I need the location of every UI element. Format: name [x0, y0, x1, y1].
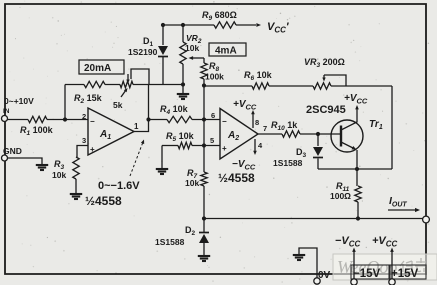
- wire VR2 wiper to R8: [203, 58, 205, 63]
- wire D1 anode: [162, 25, 164, 45]
- wire R1 to A1 inverting input: [47, 119, 88, 121]
- junction D1 top on rail: [161, 23, 165, 27]
- wire A2 output pin 7: [258, 133, 282, 135]
- svg-text:10k: 10k: [185, 178, 199, 188]
- ground (R3): [70, 194, 82, 199]
- junction VR2 bottom: [181, 82, 185, 86]
- svg-text:1S2190: 1S2190: [128, 47, 158, 57]
- wire VR1 wiper loop: [131, 69, 149, 85]
- junction summing column / pin 5 line: [202, 143, 206, 147]
- resistor R6: [244, 70, 273, 89]
- ground (input GND): [36, 165, 48, 170]
- terminal +15V: [389, 279, 395, 285]
- wire VR2 bottom to ground: [182, 64, 184, 93]
- resistor R10: [271, 120, 300, 137]
- wire D3 cathode to emitter rail: [317, 159, 319, 170]
- ground (VR2 / D1 branch): [177, 94, 189, 99]
- transistor Tr1 2SC945: [331, 105, 363, 169]
- wire R4 to A2 pin 6: [192, 119, 220, 121]
- svg-text:10k: 10k: [52, 170, 66, 180]
- svg-text:0~+10V: 0~+10V: [4, 96, 34, 106]
- svg-text:10k: 10k: [185, 43, 199, 53]
- diode D2 1S1588: [199, 233, 209, 244]
- wire VR2 top: [182, 25, 184, 42]
- wire feedback left vertical: [64, 85, 66, 120]
- potentiometer VR2: [180, 42, 204, 64]
- svg-text:½4558: ½4558: [85, 194, 122, 208]
- svg-text:1: 1: [134, 122, 139, 131]
- op-amp A2: [220, 109, 258, 160]
- wire node B to R6: [204, 85, 252, 87]
- wire R3 bottom: [75, 179, 77, 193]
- terminal 0V: [314, 278, 320, 284]
- wire D3 anode: [317, 134, 319, 146]
- resistor R11: [355, 186, 361, 202]
- svg-text:−: −: [90, 117, 95, 126]
- resistor R7: [201, 172, 207, 186]
- wire R10 to base: [300, 133, 341, 135]
- wire R11 to output rail: [357, 202, 359, 219]
- junction summing column / pin 6 line: [202, 117, 206, 121]
- svg-text:1S1588: 1S1588: [155, 237, 185, 247]
- terminal output (right border): [423, 216, 430, 223]
- wire output rail: [204, 218, 423, 220]
- svg-text:0~−1.6V: 0~−1.6V: [98, 180, 140, 192]
- svg-text:20mA: 20mA: [84, 63, 111, 74]
- svg-text:5k: 5k: [113, 100, 123, 110]
- ground (R5): [156, 169, 168, 174]
- wire input to R1: [7, 119, 28, 121]
- svg-text:8: 8: [255, 118, 259, 127]
- op-amp A1: [88, 108, 134, 155]
- wire -15V supply arrow: [352, 248, 356, 281]
- potentiometer VR3 (rheostat): [313, 75, 346, 89]
- wire R6 to VR3: [269, 85, 313, 87]
- wire GND terminal: [7, 158, 42, 164]
- node VCC' arrow: [256, 23, 261, 27]
- wire sense loop right vertical: [391, 86, 393, 169]
- wire R7 to output rail: [203, 186, 205, 219]
- svg-text:1S1588: 1S1588: [273, 158, 303, 168]
- annotation box 4mA: [209, 43, 246, 57]
- resistor R9: [202, 10, 237, 28]
- resistor R1: [20, 116, 54, 137]
- wire D1 cathode: [162, 57, 164, 85]
- wire emitter rail: [318, 168, 392, 170]
- wire feedback rail: [65, 84, 149, 86]
- wire +15V supply arrow: [390, 248, 394, 281]
- wire emitter to R11: [356, 169, 358, 186]
- junction A1 output / R4: [146, 117, 150, 121]
- svg-text:100Ω: 100Ω: [330, 191, 351, 201]
- wire 0V terminal loop: [299, 248, 317, 278]
- svg-text:2: 2: [82, 112, 86, 121]
- svg-text:7: 7: [263, 124, 267, 133]
- svg-text:4mA: 4mA: [215, 46, 237, 57]
- wire D1 cathode to VR2 bottom: [149, 84, 183, 86]
- wire R5 left to ground: [161, 146, 163, 169]
- wire VR3 to sense loop corner: [331, 85, 392, 87]
- ground (D2): [198, 256, 210, 261]
- diode D1 1S2190: [158, 46, 168, 57]
- +15V terminal box: [390, 265, 426, 279]
- svg-text:GND: GND: [3, 146, 22, 156]
- svg-text:6: 6: [211, 111, 215, 120]
- resistor R3: [73, 157, 79, 179]
- svg-text:2SC945: 2SC945: [306, 104, 346, 116]
- pin 4 stub (-VCC): [253, 139, 257, 155]
- wire R5 to A2 pin 5: [192, 145, 220, 147]
- junction R11 / output rail: [356, 216, 360, 220]
- pin 8 stub (+VCC): [251, 110, 255, 128]
- resistor R8: [201, 63, 207, 79]
- svg-text:½4558: ½4558: [218, 171, 255, 185]
- junction R7 / output rail: [202, 216, 206, 220]
- svg-text:−15V: −15V: [353, 268, 381, 280]
- svg-text:+15V: +15V: [391, 268, 419, 280]
- annotation arrow 20mA to VR1: [126, 74, 129, 84]
- wire VCC' rail: [163, 24, 256, 26]
- junction node B (R8/R6/summing column): [202, 83, 206, 87]
- svg-text:5: 5: [210, 136, 214, 145]
- svg-text:+: +: [222, 144, 227, 153]
- wire A1 output: [134, 85, 149, 132]
- junction emitter: [355, 167, 359, 171]
- wire summing column vertical: [203, 86, 205, 173]
- svg-text:IN: IN: [3, 108, 10, 115]
- wire D2 anode to ground: [203, 243, 205, 255]
- wire R8 bottom: [203, 79, 205, 86]
- junction VR2 top on rail: [181, 23, 185, 27]
- resistor R5: [162, 131, 195, 149]
- watermark box: [333, 254, 437, 280]
- wire output rail to D2: [203, 219, 205, 233]
- junction A1 inverting node: [63, 117, 67, 121]
- svg-text:3: 3: [82, 136, 86, 145]
- terminal IN: [2, 116, 8, 122]
- ground (0V): [293, 255, 305, 260]
- resistor R2: [74, 81, 105, 105]
- terminal GND: [2, 155, 8, 161]
- svg-text:+: +: [90, 145, 95, 154]
- annotation box 20mA: [79, 60, 124, 74]
- annotation 0~-1.6V: [98, 140, 144, 193]
- terminal -15V: [351, 279, 357, 285]
- diode D3 1S1588: [313, 147, 323, 158]
- wire A1 output to R4: [149, 119, 168, 121]
- resistor R4: [160, 104, 192, 123]
- watermark CJK glyphs (drawn strokes): [400, 258, 427, 272]
- svg-text:−: −: [222, 117, 227, 126]
- -15V terminal box: [351, 265, 389, 279]
- node Iout arrow: [388, 208, 420, 212]
- junction base / D3: [316, 132, 320, 136]
- wire A1 pin 3 to R3: [77, 146, 88, 158]
- potentiometer VR1: [120, 81, 133, 97]
- svg-text:100k: 100k: [205, 72, 224, 82]
